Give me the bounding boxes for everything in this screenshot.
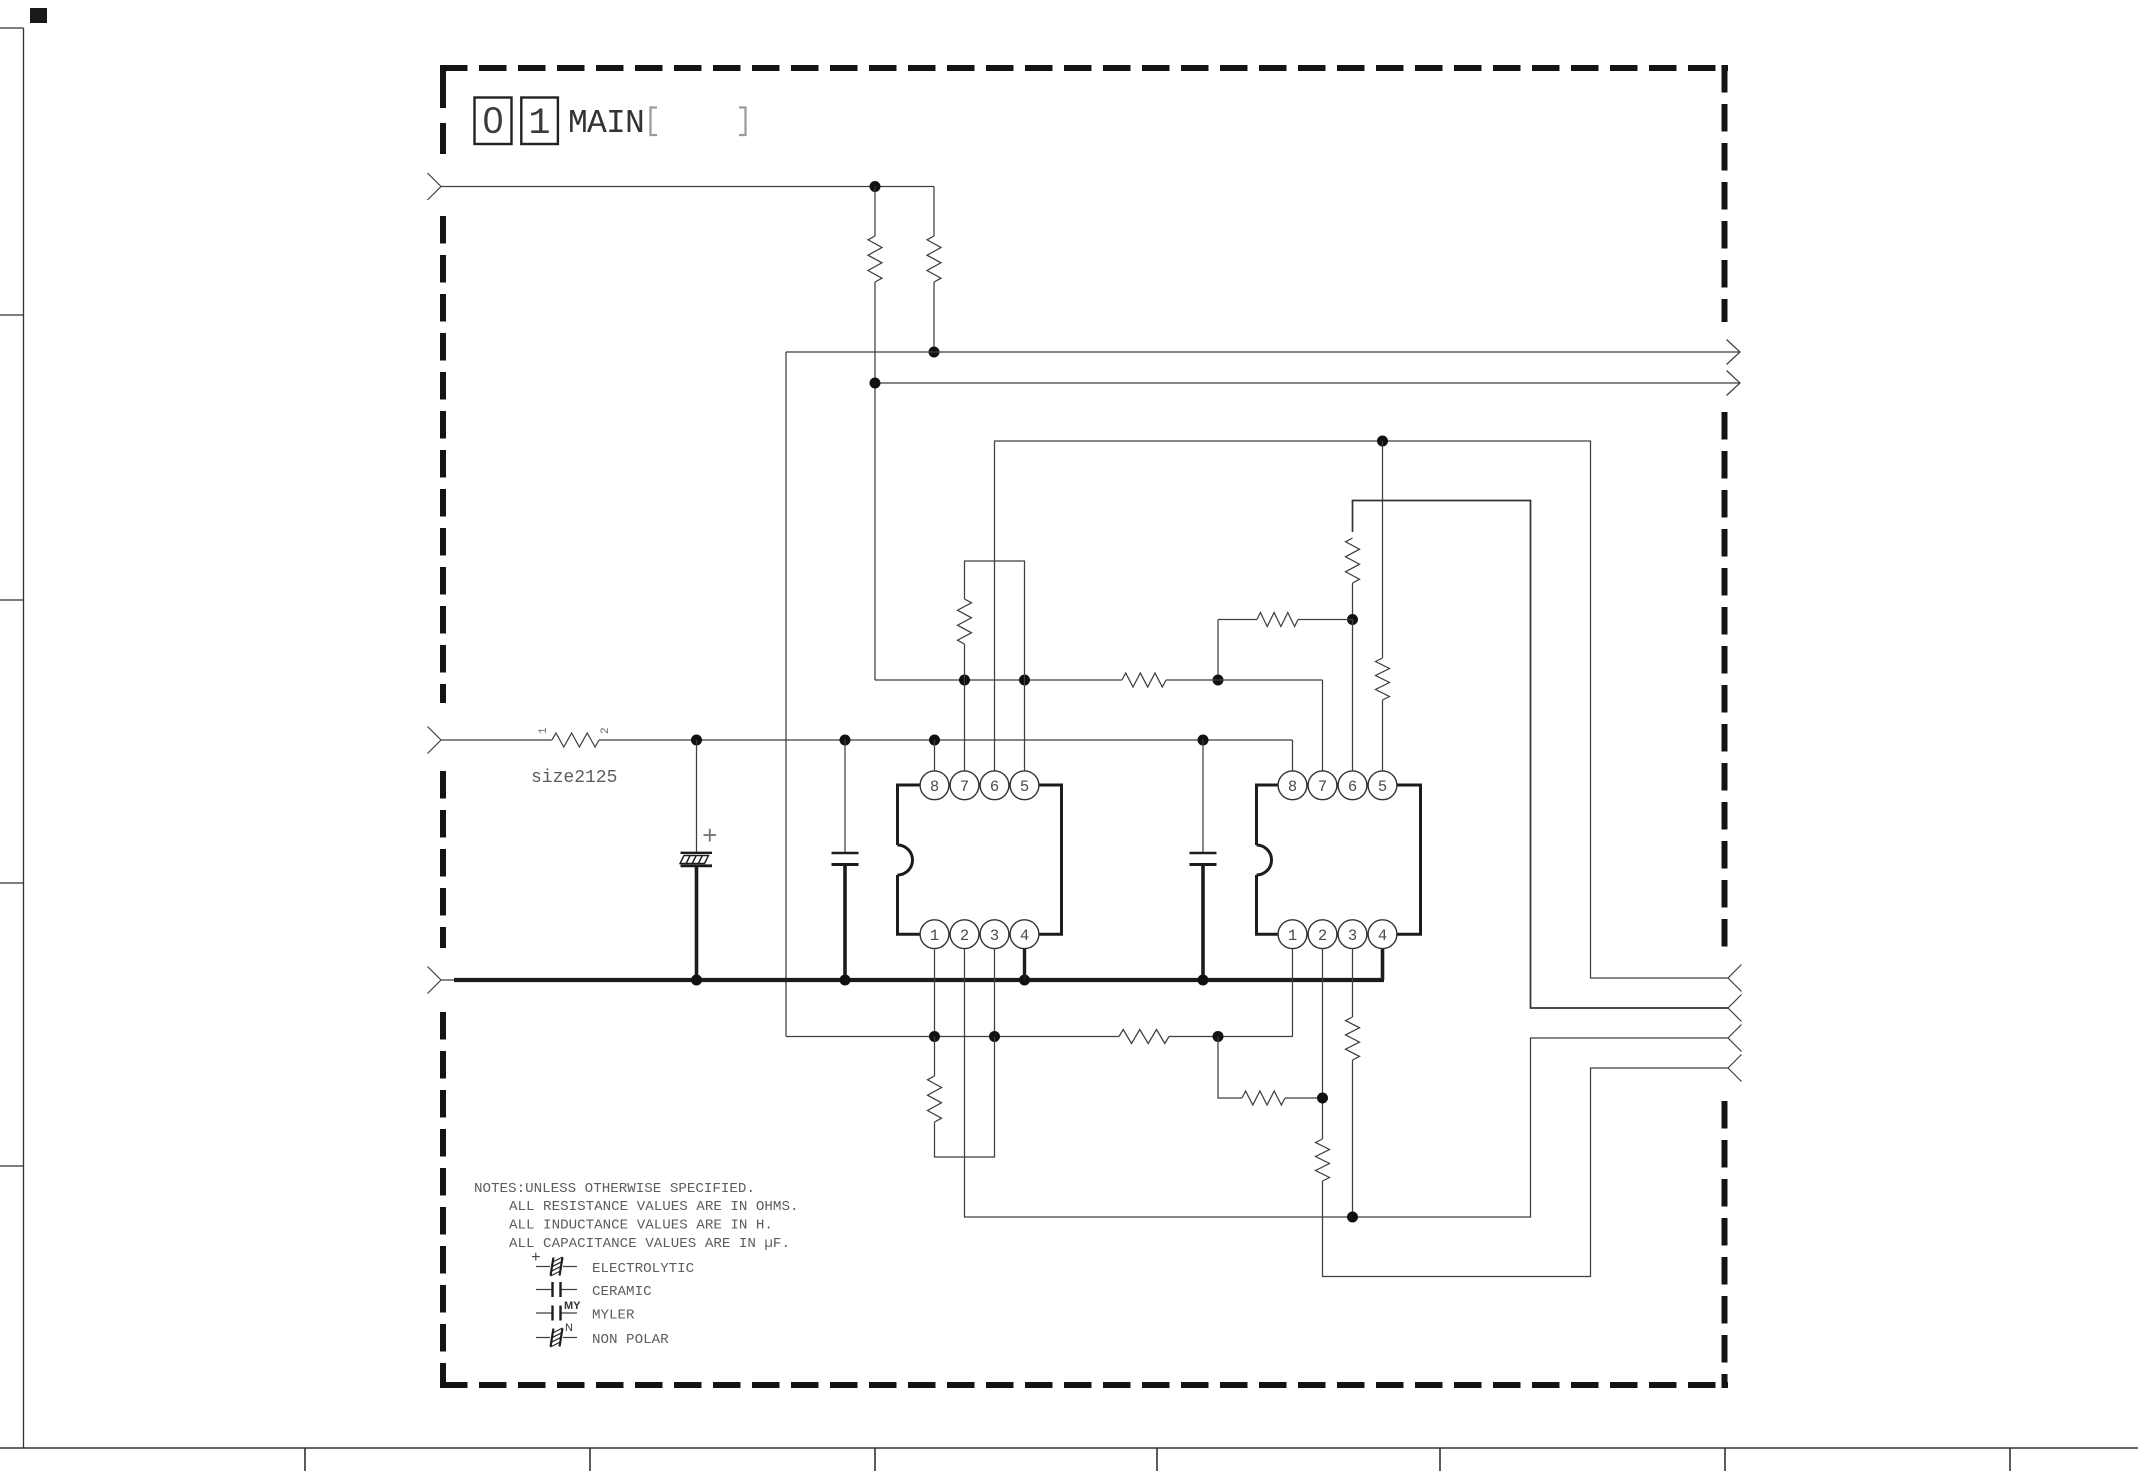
dashed schematic border right [1722,65,1728,322]
resistor R-L (x=1322.5 lower) [1316,1139,1330,1181]
output connector CH2 [1728,995,1742,1022]
svg-text:2: 2 [960,927,969,945]
wire pin2L column to CH3 [965,948,1729,1217]
IC U2 pin 3 [1338,920,1367,949]
resistor R-B (x=934) [933,187,935,237]
wire x1218 vertical [1217,620,1219,681]
wire pin1R column [1292,948,1294,1037]
pin4L thick drop [1023,948,1026,980]
wire pin5L drop [1024,680,1026,771]
IC U1 pin 7 [950,771,979,800]
header page-number box 1 [521,98,558,145]
wire pin6R down [1352,620,1354,772]
svg-text:4: 4 [1020,927,1029,945]
svg-text:0: 0 [483,100,504,141]
wire OUT1 (y=352) [786,351,1740,353]
resistor R-G (x=1382.5) [1382,441,1384,658]
node junction pin7L [959,675,970,686]
IC U2 pin 5 [1368,771,1397,800]
IC U1 pin 3 [980,920,1009,949]
wire net y=1036.5 [786,1036,1119,1038]
svg-text:1: 1 [930,927,939,945]
IC U2 pin 2 [1308,920,1337,949]
wire pin1L column [934,948,936,1037]
IC U1 pin 1 [920,920,949,949]
IC U1 body [898,785,1062,934]
svg-text:2: 2 [600,727,612,734]
dashed schematic border top [440,65,1728,71]
resistor R-I (y=1036.5) [1119,1030,1169,1044]
legend ceramic symbol [536,1289,552,1291]
svg-text:size2125: size2125 [531,768,617,788]
output connector CH3 [1728,1025,1742,1052]
resistor R-C (x=1352.5 upper) [1346,538,1360,583]
IC U2 body [1257,785,1421,934]
node junction pin2R/y1098 [1317,1093,1328,1104]
dashed schematic border bottom [440,1382,1728,1388]
svg-text:+: + [531,1249,541,1267]
resistor R-A (x=875) [874,187,876,237]
left margin rule [23,28,25,1448]
IC U2 pin 6 [1338,771,1367,800]
resistor R-M (x=1352.5 lower) [1346,1017,1360,1060]
svg-text:1: 1 [528,103,550,145]
svg-text:1: 1 [1288,927,1297,945]
node junctions on y740 [691,735,702,746]
wire pin8L drop [934,740,936,771]
header page-number box 0 [475,98,512,145]
IC U2 pin 1 [1278,920,1307,949]
node junction R-B bottom [929,347,940,358]
legend electrolytic symbol [536,1266,550,1268]
IC U1 pin 4 [1010,920,1039,949]
wire pin7R drop [1322,680,1324,771]
svg-text:8: 8 [1288,778,1297,796]
wire net y=441 [995,441,1729,978]
node junction x1218/y680 [1213,675,1224,686]
output connector CH4 [1728,1055,1742,1082]
node junction pin6R [1347,614,1358,625]
wire x875 vertical [874,282,876,680]
IC U1 pin 6 [980,771,1009,800]
svg-text:3: 3 [1348,927,1357,945]
svg-text:6: 6 [1348,778,1357,796]
svg-text:4: 4 [1378,927,1387,945]
svg-text:ALL CAPACITANCE VALUES ARE IN: ALL CAPACITANCE VALUES ARE IN µF. [509,1236,790,1252]
node junction pin5L [1019,675,1030,686]
bus junction dots [691,975,702,986]
wire pin2R column [1322,948,1324,1139]
wire OUT2 (y=383) [875,382,1740,384]
IC U1 pin 8 [920,771,949,800]
svg-text:2: 2 [1318,927,1327,945]
resistor R-D (y=619.5) [1218,619,1257,621]
svg-text:N: N [565,1322,573,1334]
ground bus input connector [428,967,442,994]
svg-text:ALL RESISTANCE VALUES ARE IN O: ALL RESISTANCE VALUES ARE IN OHMS. [509,1199,798,1215]
input connector IN1 [428,173,442,200]
node junction pin3R/y1217 [1347,1212,1358,1223]
svg-text:CERAMIC: CERAMIC [592,1284,652,1300]
header brackets [651,108,658,136]
input connector IN2 [428,727,442,754]
IC U1 pin 5 [1010,771,1039,800]
capacitor C3 ceramic (x=1203) [1202,740,1204,852]
wire pin8R drop [1292,740,1294,771]
wire pin3R column [1352,948,1354,1017]
output connector CH1 [1728,965,1742,992]
wire pin2R to CH4 [1323,1068,1729,1277]
IC U2 pin 7 [1308,771,1337,800]
svg-text:MY: MY [564,1300,581,1312]
svg-text:5: 5 [1020,778,1029,796]
node junction y441/pin5R column [1377,436,1388,447]
wire pin3L column [994,948,996,1037]
wire net pin6R loop to CH2 [1353,501,1729,1009]
pin4R thick drop [1381,948,1385,980]
svg-text:+: + [702,822,718,852]
left margin ticks [0,27,24,29]
bottom margin rule [0,1447,2138,1449]
node junction OUT2/x875 [870,378,881,389]
capacitor C1 electrolytic (x=696.5) [696,740,698,852]
dashed schematic border left [440,66,446,154]
wire pin7L drop [964,680,966,771]
svg-text:NON POLAR: NON POLAR [592,1332,669,1348]
ground bus (thick) [454,978,1384,982]
svg-text:MAIN: MAIN [568,105,644,142]
legend myler symbol [536,1312,552,1314]
wire IN1 horizontal [441,186,934,188]
svg-text:1: 1 [538,727,550,734]
svg-text:7: 7 [960,778,969,796]
svg-text:5: 5 [1378,778,1387,796]
capacitor C2 ceramic (x=845) [844,740,846,852]
wire net y=680 [875,679,1122,681]
wire long vertical x=786 [785,352,787,1037]
resistor R-J (x=934.5 lower) + U loop [934,1037,936,1077]
page corner mark [30,8,47,23]
IC U2 pin 8 [1278,771,1307,800]
resistor R-F (x=964.5) + U loop [958,599,972,644]
bottom margin ticks [304,1448,306,1471]
svg-text:8: 8 [930,778,939,796]
svg-text:ALL INDUCTANCE VALUES ARE IN H: ALL INDUCTANCE VALUES ARE IN H. [509,1218,773,1234]
IC U2 pin 4 [1368,920,1397,949]
svg-text:6: 6 [990,778,999,796]
legend non polar symbol [536,1337,550,1339]
node junction on IN1 [870,181,881,192]
IC U1 pin 2 [950,920,979,949]
svg-text:NOTES:UNLESS OTHERWISE SPECIFI: NOTES:UNLESS OTHERWISE SPECIFIED. [474,1181,755,1197]
resistor R-E (y=680) [1122,673,1166,687]
resistor R-H (y=740) with pin labels [441,739,552,741]
svg-text:MYLER: MYLER [592,1308,635,1324]
svg-text:7: 7 [1318,778,1327,796]
svg-text:ELECTROLYTIC: ELECTROLYTIC [592,1261,694,1277]
svg-text:3: 3 [990,927,999,945]
resistor R-K (y=1098) [1218,1037,1242,1099]
